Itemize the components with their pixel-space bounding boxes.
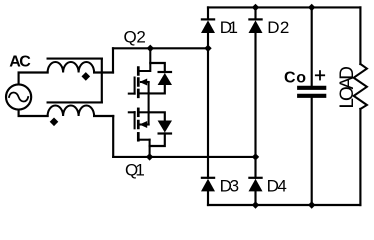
svg-text:LOAD: LOAD <box>337 66 358 109</box>
wire L2 to dropper <box>94 115 113 117</box>
svg-text:AC: AC <box>9 53 31 70</box>
svg-text:Q2: Q2 <box>124 28 146 47</box>
diode D2 <box>249 7 263 157</box>
junction D4 bottom <box>252 201 259 208</box>
wire Q1 rail <box>113 156 255 158</box>
junction Q2 drain <box>147 45 154 52</box>
wire Q2 source to Q1 drain <box>148 93 150 112</box>
phase dot L1 <box>82 72 91 81</box>
svg-text:D3: D3 <box>220 177 240 196</box>
wire AC top to winding <box>19 73 48 85</box>
AC source V1 <box>6 84 31 109</box>
wire riser to Q2 rail <box>112 48 114 72</box>
inductor winding L2 bottom <box>48 102 102 116</box>
svg-text:Co: Co <box>284 69 306 86</box>
transistor Q2 <box>129 48 151 97</box>
svg-text:D4: D4 <box>267 177 287 196</box>
body diode Q1 <box>149 112 172 146</box>
transistor Q1 <box>129 109 150 157</box>
inductor winding L1 top <box>48 59 102 73</box>
diode D3 <box>201 178 215 205</box>
junction Q1 source <box>146 153 153 160</box>
junction Co bottom <box>308 201 315 208</box>
junction D2 top <box>252 4 259 11</box>
diode D4 <box>249 157 263 205</box>
diode D1 <box>201 7 215 48</box>
resistor LOAD <box>354 7 367 205</box>
svg-text:D1: D1 <box>220 18 238 37</box>
wire L1 to riser <box>94 71 113 73</box>
label plus <box>316 71 324 79</box>
wire AC bottom to winding <box>19 110 48 116</box>
capacitor Co <box>299 7 324 205</box>
body diode Q2 <box>149 63 172 93</box>
wire DC+ top rail <box>208 6 360 8</box>
wire core link <box>101 59 103 103</box>
wire Q2 rail <box>113 47 208 49</box>
junction Co top <box>308 4 315 11</box>
svg-text:Q1: Q1 <box>125 161 145 180</box>
wire dropper to Q1 rail <box>112 116 114 157</box>
junction node A <box>204 45 211 52</box>
svg-text:D2: D2 <box>267 18 289 37</box>
wire DC- bottom rail <box>208 204 360 206</box>
wire D1 branch mid <box>207 48 209 178</box>
junction node B <box>252 153 259 160</box>
phase dot L2 <box>50 118 59 127</box>
